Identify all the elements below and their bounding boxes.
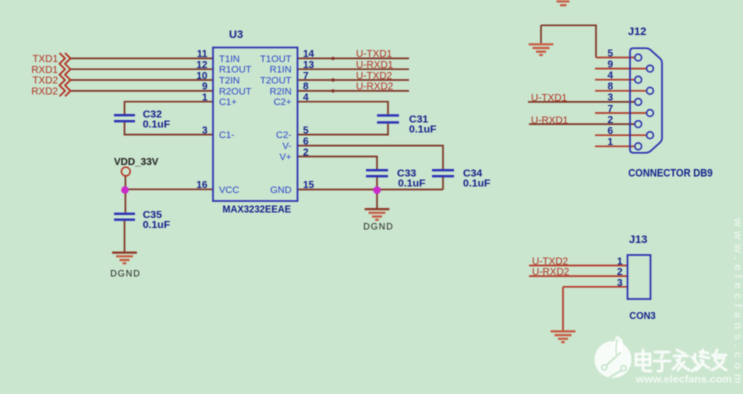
- svg-text:12: 12: [196, 60, 208, 71]
- svg-text:CONNECTOR DB9: CONNECTOR DB9: [628, 167, 712, 179]
- svg-text:0.1uF: 0.1uF: [463, 177, 491, 189]
- svg-text:C2-: C2-: [276, 130, 291, 141]
- svg-text:11: 11: [197, 49, 208, 60]
- svg-text:TXD1: TXD1: [32, 54, 58, 65]
- svg-text:6: 6: [607, 126, 613, 137]
- svg-text:1: 1: [617, 257, 623, 268]
- svg-text:3: 3: [617, 278, 623, 289]
- svg-text:C1-: C1-: [219, 130, 234, 141]
- svg-text:U3: U3: [229, 29, 243, 41]
- svg-text:16: 16: [196, 180, 208, 191]
- svg-text:R2OUT: R2OUT: [219, 86, 252, 97]
- svg-text:5: 5: [303, 125, 309, 136]
- svg-text:DGND: DGND: [363, 222, 394, 232]
- svg-text:U-RXD2: U-RXD2: [356, 82, 394, 93]
- svg-text:GND: GND: [270, 185, 291, 196]
- svg-text:J12: J12: [628, 26, 646, 38]
- svg-text:U-RXD2: U-RXD2: [532, 267, 570, 278]
- svg-text:U-RXD1: U-RXD1: [356, 60, 394, 71]
- svg-text:C2+: C2+: [274, 97, 292, 108]
- svg-text:www.elecfans.com: www.elecfans.com: [732, 217, 743, 388]
- svg-text:3: 3: [607, 93, 613, 104]
- svg-text:T1OUT: T1OUT: [260, 54, 292, 65]
- svg-text:DGND: DGND: [110, 268, 141, 278]
- svg-text:U-TXD1: U-TXD1: [531, 93, 568, 104]
- svg-text:3: 3: [202, 125, 208, 136]
- svg-text:U-TXD2: U-TXD2: [356, 71, 393, 82]
- svg-text:C1+: C1+: [219, 97, 237, 108]
- svg-text:10: 10: [196, 71, 208, 82]
- svg-text:0.1uF: 0.1uF: [398, 177, 426, 189]
- svg-text:RXD2: RXD2: [31, 87, 58, 98]
- svg-text:13: 13: [303, 60, 315, 71]
- svg-text:4: 4: [303, 93, 309, 104]
- svg-text:U-RXD1: U-RXD1: [531, 115, 569, 126]
- svg-text:T2IN: T2IN: [219, 76, 240, 87]
- svg-text:R1OUT: R1OUT: [219, 65, 252, 76]
- svg-text:14: 14: [303, 49, 315, 60]
- svg-text:MAX3232EEAE: MAX3232EEAE: [223, 204, 292, 215]
- svg-text:1: 1: [607, 137, 613, 148]
- svg-text:8: 8: [303, 82, 309, 93]
- svg-text:J13: J13: [629, 234, 647, 246]
- svg-text:4: 4: [607, 71, 613, 82]
- svg-text:0.1uF: 0.1uF: [409, 123, 437, 135]
- svg-text:0.1uF: 0.1uF: [143, 219, 171, 231]
- svg-text:RXD1: RXD1: [31, 65, 58, 76]
- svg-text:8: 8: [607, 82, 613, 93]
- svg-text:R2IN: R2IN: [270, 86, 292, 97]
- svg-text:V-: V-: [282, 141, 291, 152]
- svg-text:VDD_33V: VDD_33V: [114, 157, 159, 168]
- svg-text:CON3: CON3: [629, 311, 656, 322]
- svg-text:T1IN: T1IN: [219, 54, 240, 65]
- svg-text:7: 7: [303, 71, 309, 82]
- svg-text:V+: V+: [279, 152, 291, 163]
- svg-text:2: 2: [617, 267, 623, 278]
- svg-text:2: 2: [607, 115, 613, 126]
- svg-text:www.elecfans.com: www.elecfans.com: [635, 374, 732, 386]
- svg-text:5: 5: [607, 48, 613, 59]
- svg-text:7: 7: [607, 104, 613, 115]
- svg-text:9: 9: [202, 82, 208, 93]
- svg-text:9: 9: [607, 59, 613, 70]
- svg-text:U-TXD2: U-TXD2: [532, 256, 569, 267]
- svg-text:6: 6: [303, 136, 309, 147]
- svg-text:0.1uF: 0.1uF: [143, 118, 171, 130]
- svg-text:15: 15: [303, 180, 315, 191]
- svg-text:2: 2: [303, 147, 309, 158]
- svg-text:T2OUT: T2OUT: [260, 76, 292, 87]
- svg-text:VCC: VCC: [219, 185, 239, 196]
- svg-text:1: 1: [202, 93, 208, 104]
- svg-text:U-TXD1: U-TXD1: [356, 49, 393, 60]
- svg-text:TXD2: TXD2: [32, 76, 58, 87]
- svg-text:R1IN: R1IN: [270, 65, 292, 76]
